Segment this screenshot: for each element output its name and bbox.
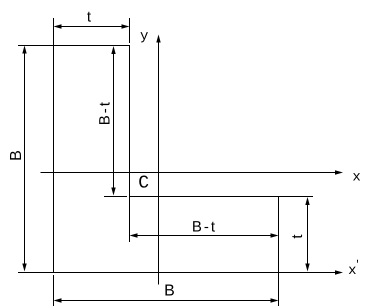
svg-text:B‑t: B‑t [192, 219, 217, 236]
svg-text:y: y [140, 29, 148, 45]
svg-text:x: x [352, 170, 360, 186]
svg-text:C: C [138, 174, 149, 194]
svg-text:B‑t: B‑t [97, 100, 114, 125]
svg-text:B: B [164, 283, 175, 300]
svg-text:B: B [8, 150, 25, 161]
svg-text:′: ′ [354, 259, 360, 271]
